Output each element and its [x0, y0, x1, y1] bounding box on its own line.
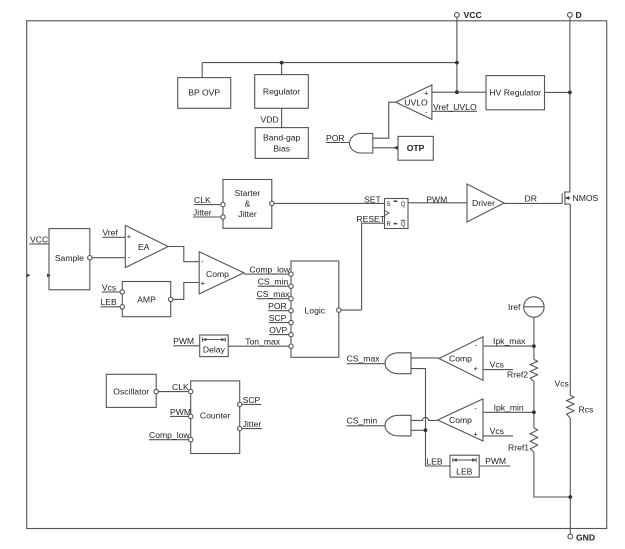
- svg-text:Jitter: Jitter: [193, 208, 212, 218]
- svg-text:Comp: Comp: [206, 269, 229, 279]
- svg-text:Band-gap: Band-gap: [263, 133, 300, 143]
- svg-text:Bias: Bias: [273, 144, 290, 154]
- svg-text:Logic: Logic: [305, 305, 326, 315]
- svg-text:CS_max: CS_max: [257, 289, 291, 299]
- svg-text:CS_min: CS_min: [258, 277, 289, 287]
- svg-text:Ipk_max: Ipk_max: [493, 336, 526, 346]
- svg-text:+: +: [474, 364, 479, 373]
- svg-text:Q: Q: [401, 222, 406, 228]
- svg-text:Driver: Driver: [472, 198, 495, 208]
- svg-text:OTP: OTP: [407, 143, 425, 153]
- svg-text:UVLO: UVLO: [404, 97, 428, 107]
- svg-text:Vref_UVLO: Vref_UVLO: [433, 102, 477, 112]
- svg-text:LEB: LEB: [101, 297, 118, 307]
- svg-text:VDD: VDD: [261, 115, 279, 125]
- svg-text:VCC: VCC: [30, 234, 48, 244]
- svg-text:Vcs: Vcs: [490, 360, 504, 370]
- svg-text:+: +: [201, 279, 206, 288]
- svg-text:Sample: Sample: [55, 253, 84, 263]
- svg-text:Comp_low: Comp_low: [149, 430, 190, 440]
- svg-text:CLK: CLK: [172, 382, 189, 392]
- svg-text:CLK: CLK: [194, 195, 211, 205]
- svg-text:OVP: OVP: [269, 325, 287, 335]
- svg-text:&: &: [245, 198, 251, 208]
- svg-text:Vcs: Vcs: [555, 379, 569, 389]
- svg-text:Rref2: Rref2: [507, 370, 528, 380]
- svg-text:Vcs: Vcs: [490, 426, 504, 436]
- svg-text:Vcs: Vcs: [102, 282, 116, 292]
- svg-text:POR: POR: [326, 133, 345, 143]
- svg-text:Iref: Iref: [508, 302, 521, 312]
- svg-text:Delay: Delay: [203, 344, 226, 354]
- svg-text:NMOS: NMOS: [573, 193, 599, 203]
- svg-text:PWM: PWM: [426, 195, 447, 205]
- svg-text:Comp_low: Comp_low: [249, 265, 290, 275]
- svg-text:+: +: [127, 232, 132, 241]
- svg-text:Rref1: Rref1: [508, 442, 529, 452]
- svg-text:S: S: [387, 202, 391, 208]
- svg-text:R: R: [387, 222, 392, 228]
- svg-text:POR: POR: [268, 301, 287, 311]
- svg-text:RESET: RESET: [356, 214, 385, 224]
- svg-text:DR: DR: [525, 194, 537, 204]
- svg-text:EA: EA: [138, 242, 150, 252]
- svg-text:AMP: AMP: [137, 295, 156, 305]
- svg-text:LEB: LEB: [456, 466, 473, 476]
- svg-text:GND: GND: [576, 533, 595, 543]
- svg-text:Jitter: Jitter: [243, 419, 262, 429]
- svg-text:PWM: PWM: [173, 336, 194, 346]
- svg-text:CS_max: CS_max: [347, 354, 381, 364]
- svg-text:SCP: SCP: [269, 313, 287, 323]
- svg-text:Q: Q: [401, 202, 406, 208]
- svg-text:+: +: [473, 430, 478, 439]
- svg-text:VCC: VCC: [464, 10, 482, 20]
- svg-text:Counter: Counter: [200, 410, 231, 420]
- svg-text:PWM: PWM: [170, 407, 191, 417]
- svg-text:+: +: [424, 88, 429, 97]
- svg-text:Starter: Starter: [235, 188, 261, 198]
- svg-text:BP OVP: BP OVP: [188, 88, 220, 98]
- svg-text:PWM: PWM: [485, 456, 506, 466]
- svg-text:Rcs: Rcs: [579, 405, 594, 415]
- svg-text:Regulator: Regulator: [263, 87, 300, 97]
- svg-text:LEB: LEB: [426, 456, 443, 466]
- svg-text:HV Regulator: HV Regulator: [489, 88, 541, 98]
- svg-text:Oscillator: Oscillator: [113, 386, 149, 396]
- svg-text:Vref: Vref: [102, 228, 118, 238]
- svg-text:SCP: SCP: [243, 395, 261, 405]
- svg-text:Jitter: Jitter: [238, 209, 257, 219]
- svg-text:Ton_max: Ton_max: [245, 337, 281, 347]
- svg-text:CS_min: CS_min: [347, 416, 378, 426]
- svg-text:Comp: Comp: [449, 415, 472, 425]
- svg-text:Ipk_min: Ipk_min: [494, 402, 524, 412]
- svg-text:Comp: Comp: [449, 354, 472, 364]
- svg-text:SET: SET: [364, 195, 381, 205]
- svg-text:D: D: [576, 10, 582, 20]
